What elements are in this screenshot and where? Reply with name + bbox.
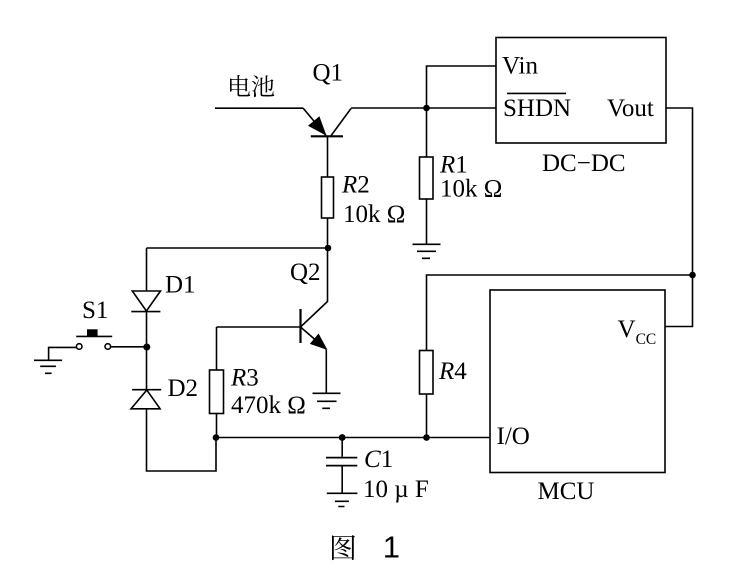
- wire battery to Q1 emitter: [215, 107, 303, 109]
- diode D2 cathode bar: [132, 389, 161, 391]
- resistor R1 body: [420, 157, 434, 199]
- transistor Q1 emitter arrow (PNP, pointing into base): [308, 116, 327, 136]
- wire mid rail to R4: [427, 275, 693, 351]
- wire branch up to Vin: [427, 66, 497, 108]
- svg-text:VCC: VCC: [618, 316, 657, 348]
- node junction dot Vout rail / Vcc: [689, 272, 696, 279]
- node junction dot S1/D1/D2: [143, 344, 150, 351]
- transistor Q2 collector lead: [301, 248, 328, 327]
- wire S1 left contact to ground: [49, 347, 77, 360]
- svg-text:470k Ω: 470k Ω: [231, 392, 306, 419]
- wire S1 right contact to node: [111, 346, 144, 348]
- resistor R4 body: [420, 351, 434, 395]
- transistor Q1 base bar: [311, 135, 343, 137]
- switch S1 left contact circle: [76, 344, 82, 350]
- wire R3 top lead: [216, 327, 218, 370]
- svg-text:D1: D1: [165, 272, 196, 299]
- node junction dot R4 bottom: [423, 434, 430, 441]
- transistor Q1 emitter diagonal: [303, 108, 326, 136]
- wire Vcc into MCU: [665, 275, 693, 327]
- svg-text:C1: C1: [364, 446, 393, 473]
- wire R2 bottom lead: [327, 218, 329, 248]
- resistor R2 body: [322, 177, 334, 218]
- svg-text:R2: R2: [341, 172, 370, 199]
- wire R4 bottom lead: [426, 394, 428, 438]
- svg-text:D2: D2: [168, 375, 199, 402]
- wire C1 bottom lead: [341, 466, 343, 493]
- capacitor C1 bottom plate: [326, 465, 357, 467]
- svg-text:R1: R1: [439, 152, 468, 179]
- caption figure 图 1: [332, 535, 355, 560]
- wire node row y=248: [147, 247, 329, 249]
- svg-text:10 µ F: 10 µ F: [363, 476, 429, 503]
- svg-text:Q2: Q2: [290, 259, 321, 286]
- wire S1 node to D2: [146, 347, 148, 390]
- ground below Q2: [313, 393, 341, 408]
- transistor Q2 emitter diagonal: [301, 327, 327, 350]
- svg-text:R3: R3: [230, 365, 259, 392]
- capacitor C1 top plate: [326, 457, 357, 459]
- wire D2 bottom lead down and around to I/O row: [147, 409, 217, 471]
- label battery 电池: [230, 75, 274, 97]
- svg-text:S1: S1: [82, 297, 108, 324]
- wire C1 top lead: [341, 438, 343, 457]
- ground at S1: [34, 360, 62, 373]
- svg-text:10k Ω: 10k Ω: [343, 201, 405, 228]
- resistor R3 body: [210, 370, 224, 414]
- svg-text:SHDN: SHDN: [503, 95, 571, 122]
- wire R1 bottom lead: [426, 199, 428, 244]
- wire R3 bottom lead: [216, 414, 218, 438]
- svg-text:MCU: MCU: [538, 478, 595, 505]
- switch S1 button cap: [87, 329, 98, 336]
- wire D1 to S1 node: [146, 312, 148, 347]
- ground below C1: [327, 493, 358, 506]
- switch S1 right contact circle: [105, 344, 111, 350]
- wire I/O row: [216, 437, 490, 439]
- transistor Q2 base bar: [299, 309, 301, 343]
- DC-DC converter block U1: [496, 38, 666, 144]
- svg-text:DC−DC: DC−DC: [542, 150, 626, 177]
- node junction dot R2/Q2 collector: [325, 245, 332, 252]
- svg-text:Vout: Vout: [607, 95, 654, 122]
- node junction dot C1 top: [339, 434, 346, 441]
- switch S1 actuator bar: [76, 335, 112, 337]
- node junction dot R3/left branch: [213, 434, 220, 441]
- svg-text:I/O: I/O: [497, 423, 530, 450]
- wire D1 top lead from node row: [146, 248, 148, 291]
- wire R1 top lead: [426, 108, 428, 157]
- ground below R1: [413, 244, 441, 258]
- MCU block U2: [490, 290, 665, 473]
- wire Q2 emitter to ground: [325, 350, 327, 393]
- svg-text:Q1: Q1: [313, 60, 344, 87]
- transistor Q1 collector diagonal: [331, 109, 351, 137]
- wire Q1 base to R2: [327, 136, 329, 177]
- diode D2 triangle: [131, 390, 160, 409]
- diode D1 cathode bar: [131, 311, 160, 313]
- wire Q1 collector to SHDN node: [351, 107, 496, 109]
- diode D1 triangle: [132, 291, 160, 311]
- wire Q2 base to R3: [217, 326, 301, 328]
- svg-text:10k Ω: 10k Ω: [440, 176, 502, 203]
- node junction dot at R1/Vin: [423, 105, 430, 112]
- svg-text:R4: R4: [438, 358, 467, 385]
- svg-text:Vin: Vin: [502, 53, 538, 80]
- svg-text:1: 1: [383, 530, 400, 565]
- wire Vout to right rail: [666, 108, 693, 275]
- transistor Q2 emitter arrow (NPN): [310, 334, 328, 351]
